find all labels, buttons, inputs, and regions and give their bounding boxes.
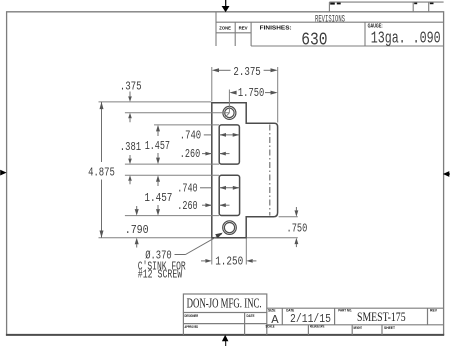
svg-text:DESIGNER: DESIGNER bbox=[185, 314, 199, 318]
svg-text:WEIGHT: WEIGHT bbox=[353, 326, 362, 330]
svg-text:1.250: 1.250 bbox=[215, 255, 243, 269]
svg-text:PART NO.: PART NO. bbox=[338, 308, 352, 312]
svg-text:REV: REV bbox=[430, 308, 438, 312]
svg-text:ZONE: ZONE bbox=[219, 26, 231, 31]
svg-text:DON-JO MFG. INC.: DON-JO MFG. INC. bbox=[187, 297, 262, 312]
svg-text:4.875: 4.875 bbox=[88, 165, 115, 179]
svg-text:630: 630 bbox=[301, 29, 327, 50]
svg-text:.375: .375 bbox=[120, 79, 142, 93]
svg-text:.750: .750 bbox=[287, 221, 308, 235]
svg-text:1.750: 1.750 bbox=[238, 86, 264, 100]
svg-text:2/11/15: 2/11/15 bbox=[290, 312, 331, 326]
svg-text:REV: REV bbox=[239, 26, 248, 31]
svg-text:.260: .260 bbox=[177, 199, 197, 213]
svg-text:SHEET: SHEET bbox=[384, 326, 396, 330]
svg-text:FINISHES:: FINISHES: bbox=[260, 25, 292, 31]
svg-text:A: A bbox=[271, 313, 279, 327]
svg-text:REVISIONS: REVISIONS bbox=[315, 15, 345, 26]
svg-text:DATE: DATE bbox=[247, 314, 256, 318]
svg-text:APPROVED: APPROVED bbox=[185, 325, 199, 329]
svg-text:.260: .260 bbox=[180, 147, 200, 161]
svg-text:SMEST-175: SMEST-175 bbox=[357, 310, 406, 324]
svg-text:1.457: 1.457 bbox=[144, 191, 172, 205]
svg-text:1.457: 1.457 bbox=[145, 139, 170, 153]
svg-text:.740: .740 bbox=[180, 128, 201, 142]
svg-text:.740: .740 bbox=[177, 182, 197, 196]
svg-text:.381: .381 bbox=[120, 140, 141, 154]
svg-text:.790: .790 bbox=[125, 223, 149, 237]
svg-text:2.375: 2.375 bbox=[233, 65, 260, 79]
svg-text:SIZE: SIZE bbox=[268, 308, 276, 312]
svg-text:#12 SCREW: #12 SCREW bbox=[138, 268, 183, 282]
svg-text:13ga. .090: 13ga. .090 bbox=[371, 30, 441, 49]
